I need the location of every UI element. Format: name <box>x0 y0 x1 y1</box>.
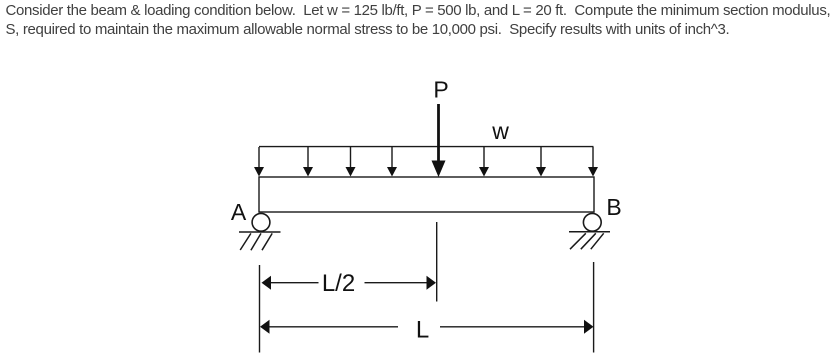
L right arrowhead <box>584 320 594 334</box>
ground line A <box>239 231 281 233</box>
dimension line L right segment <box>440 326 585 328</box>
load arrow w1 <box>254 147 264 177</box>
L/2 left arrowhead <box>262 276 272 290</box>
L/2 right arrowhead <box>427 276 437 290</box>
roller support B circle <box>583 213 601 231</box>
load arrow w5 <box>479 147 489 177</box>
load arrow w4 <box>387 147 397 177</box>
load arrow w3 <box>346 147 356 177</box>
hatch B <box>570 233 586 249</box>
extension line right <box>593 262 595 353</box>
beam <box>259 177 594 212</box>
svg-text:A: A <box>231 199 247 225</box>
roller support A circle <box>252 213 270 231</box>
svg-text:L: L <box>416 316 429 343</box>
extension line left <box>259 265 261 353</box>
hatch A <box>240 233 251 250</box>
svg-text:L/2: L/2 <box>322 270 355 297</box>
distributed load top line <box>259 146 594 148</box>
problem statement text <box>6 1 831 41</box>
dimension line L left segment <box>269 326 399 328</box>
L left arrowhead <box>260 320 270 334</box>
point load P arrow <box>432 104 446 177</box>
dimension line L/2 left segment <box>270 282 319 284</box>
load arrow w6 <box>536 147 546 177</box>
load arrow w2 <box>303 147 313 177</box>
extension line mid <box>436 222 438 302</box>
ground line B <box>569 231 610 233</box>
load arrow w7 <box>588 147 598 177</box>
svg-text:w: w <box>491 118 509 144</box>
svg-text:P: P <box>433 77 448 103</box>
dimension line L/2 right segment <box>365 282 429 284</box>
svg-text:B: B <box>606 194 621 220</box>
